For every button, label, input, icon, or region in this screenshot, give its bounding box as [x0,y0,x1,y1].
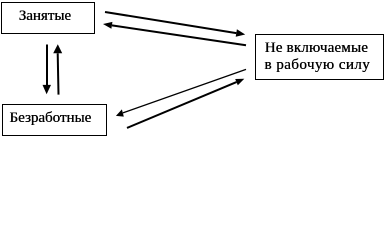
arrow: Занятые -> Безработные (vertical, downward, left) [43,45,52,95]
arrow: Безработные -> Занятые (vertical, upward, right) [53,44,62,94]
box: Безработные (unemployed) [2,104,107,136]
arrow: Не включаемые в рабочую силу -> Безработные (lower diagonal, leftward, thin) [116,69,246,116]
arrow: Безработные -> Не включаемые в рабочую силу (lower diagonal, rightward) [127,79,244,128]
box: Занятые (employed) [1,2,95,34]
arrow: Занятые -> Не включаемые в рабочую силу (upper diagonal, rightward) [105,12,245,37]
box: Не включаемые в рабочую силу (not in labour force) [255,34,384,80]
arrow: Не включаемые в рабочую силу -> Занятые (upper diagonal, leftward) [103,22,246,45]
